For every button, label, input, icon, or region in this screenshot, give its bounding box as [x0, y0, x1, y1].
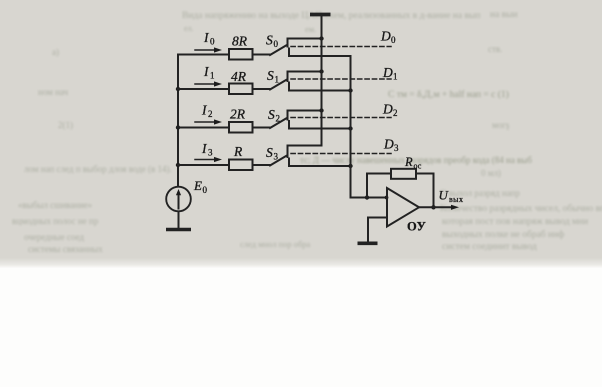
current arrow I2: [195, 121, 215, 123]
svg-text:системы связанных: системы связанных: [28, 244, 103, 254]
resistor Roc: [391, 169, 416, 179]
switch S0 arm: [270, 46, 286, 56]
svg-text:1: 1: [210, 71, 215, 81]
svg-text:С тм = δ,Д‚м + half нап = с (1: С тм = δ,Д‚м + half нап = с (1): [388, 89, 509, 100]
wire non-inverting input: [368, 218, 387, 242]
svg-text:а): а): [52, 47, 59, 57]
switch S2 upper contact to ground bus: [288, 111, 322, 120]
svg-text:выходных полке не обраб инф: выходных полке не обраб инф: [442, 229, 564, 240]
svg-text:3: 3: [394, 143, 399, 153]
label S3: [266, 145, 279, 162]
ground (source): [166, 228, 191, 232]
junction S0 upper on ground bus: [319, 36, 323, 40]
label Roc: [404, 155, 422, 171]
current arrow I1: [195, 83, 215, 85]
svg-text:S: S: [268, 107, 275, 122]
wire feedback up: [367, 174, 391, 198]
switch S0 lower contact to signal bus: [289, 49, 351, 57]
svg-text:2: 2: [276, 114, 281, 124]
svg-text:1: 1: [393, 72, 398, 82]
svg-text:Количество разрядных чисел, об: Количество разрядных чисел, обычно впол: [440, 203, 602, 214]
label D3: [383, 137, 399, 154]
svg-text:1: 1: [275, 75, 280, 85]
label S1: [267, 68, 279, 85]
junction I3 tap: [176, 163, 180, 167]
current source E0: [166, 187, 191, 212]
svg-text:Е: Е: [193, 178, 202, 193]
switch S1 lower contact to signal bus: [289, 83, 351, 91]
switch S1 upper contact to ground bus: [288, 72, 322, 82]
svg-text:3: 3: [274, 152, 279, 162]
label 4R: [231, 69, 247, 84]
switch S3 lower contact to signal bus: [289, 159, 351, 167]
wire signal bus to op-amp input: [351, 197, 388, 199]
svg-text:3: 3: [208, 148, 213, 158]
svg-text:2: 2: [393, 108, 398, 118]
svg-text:ств.: ств.: [488, 44, 502, 54]
label S2: [268, 107, 280, 124]
svg-text:0: 0: [203, 185, 208, 195]
svg-text:могş: могş: [492, 120, 510, 130]
label D0: [380, 29, 396, 46]
svg-text:8R: 8R: [232, 34, 248, 49]
wire branch 3: [178, 164, 229, 166]
svg-text:0 мл): 0 мл): [481, 168, 501, 178]
svg-text:R: R: [233, 144, 243, 159]
junction I1 tap: [176, 87, 180, 91]
svg-text:4R: 4R: [231, 69, 247, 84]
svg-text:0: 0: [210, 37, 215, 47]
resistor 2R: [229, 122, 253, 133]
label D2: [382, 102, 398, 119]
label I2: [201, 103, 213, 120]
svg-text:ОУ: ОУ: [407, 220, 426, 234]
wire 8R to switch pole: [253, 54, 271, 56]
switch S0 upper contact to ground bus: [288, 39, 322, 47]
svg-text:2: 2: [208, 109, 213, 119]
control line D0 (dashed): [291, 46, 391, 48]
svg-text:D: D: [380, 29, 391, 44]
switch S3 arm: [270, 156, 286, 166]
svg-text:0: 0: [274, 39, 279, 49]
junction feedback tap: [365, 195, 369, 199]
label Uout: [439, 188, 464, 205]
current arrow I3: [195, 159, 215, 161]
svg-text:ном нач: ном нач: [38, 87, 69, 97]
output arrow: [451, 205, 459, 210]
label D1: [382, 65, 398, 82]
svg-text:S: S: [267, 68, 274, 83]
label I1: [203, 64, 215, 81]
op-amp U1 (OY) triangle: [387, 188, 419, 227]
ground bus vertical: [321, 16, 323, 146]
junction S2 upper on ground bus: [319, 108, 323, 112]
junction S1 upper on ground bus: [319, 69, 323, 73]
switch S1 arm: [270, 80, 286, 90]
wire source to ground: [178, 212, 180, 229]
label I3: [201, 141, 213, 158]
wire 2R to switch pole: [253, 127, 271, 129]
wire branch 1: [178, 88, 229, 90]
junction I2 tap: [176, 125, 180, 129]
resistor R: [229, 160, 253, 171]
label 2R: [230, 107, 246, 122]
junction S2 lower on signal bus: [348, 126, 352, 130]
svg-text:2R: 2R: [230, 107, 246, 122]
resistor 4R: [229, 84, 253, 95]
svg-text:Вида напряжению на выходе ЦАП-: Вида напряжению на выходе ЦАП-схем, реал…: [182, 11, 480, 21]
wire left bus: [177, 55, 179, 187]
wire Roc to output node: [416, 174, 434, 208]
svg-text:U: U: [439, 188, 450, 203]
junction S1 lower on signal bus: [348, 88, 352, 92]
junction S3 lower on signal bus: [348, 164, 352, 168]
svg-text:на выи: на выи: [490, 10, 518, 20]
switch S3 upper contact to ground bus: [288, 146, 322, 158]
svg-text:0: 0: [391, 35, 396, 45]
current arrow I0: [195, 49, 215, 51]
svg-text:очередные соед: очередные соед: [24, 232, 84, 242]
control line D1 (dashed): [291, 78, 391, 80]
svg-text:R: R: [404, 155, 413, 169]
control line D2 (dashed): [291, 117, 391, 119]
ground (top): [310, 13, 331, 17]
svg-text:ел.: ел.: [184, 24, 194, 33]
bleed-through text (back of page): [12, 10, 602, 254]
switch S2 lower contact to signal bus: [289, 121, 351, 129]
label S0: [266, 33, 279, 50]
svg-text:D: D: [383, 137, 394, 152]
svg-text:D: D: [382, 102, 393, 117]
svg-text:лом нап след п выбор длоя вод: лом нап след п выбор длоя воде (в 14).: [24, 164, 172, 174]
svg-text:D: D: [382, 65, 393, 80]
switch S2 arm: [270, 119, 286, 129]
label 8R: [232, 34, 248, 49]
svg-text:вцмодных полос не пр: вцмодных полос не пр: [12, 216, 99, 226]
junction output node: [431, 205, 435, 209]
wire 4R to switch pole: [253, 88, 271, 90]
svg-text:ос: ос: [414, 162, 422, 171]
control line D3 (dashed): [291, 153, 391, 155]
wire branch 2: [178, 127, 229, 129]
wire op-amp output: [419, 206, 451, 208]
signal bus vertical: [350, 56, 352, 198]
label E0: [193, 178, 208, 195]
svg-text:S: S: [266, 33, 273, 48]
svg-text:«выбыл сшивание»: «выбыл сшивание»: [18, 200, 92, 210]
junction at op-amp inverting input: [385, 196, 389, 200]
svg-text:ем.: ем.: [305, 24, 316, 34]
svg-text:2(1): 2(1): [58, 120, 73, 130]
label R: [233, 144, 243, 159]
svg-text:след мнол пор обра: след мнол пор обра: [240, 239, 311, 249]
label I0: [203, 30, 215, 47]
ground (op-amp): [358, 242, 378, 246]
svg-text:которая пост пов напряж вывод: которая пост пов напряж вывод мни: [442, 217, 588, 227]
wire R to switch pole: [253, 164, 271, 166]
wire branch 0: [178, 54, 229, 56]
svg-text:систем соединит вывод: систем соединит вывод: [442, 242, 537, 252]
svg-text:S: S: [266, 145, 273, 160]
resistor 8R: [229, 49, 253, 60]
label OY: [407, 220, 426, 234]
svg-text:вых: вых: [449, 195, 463, 204]
